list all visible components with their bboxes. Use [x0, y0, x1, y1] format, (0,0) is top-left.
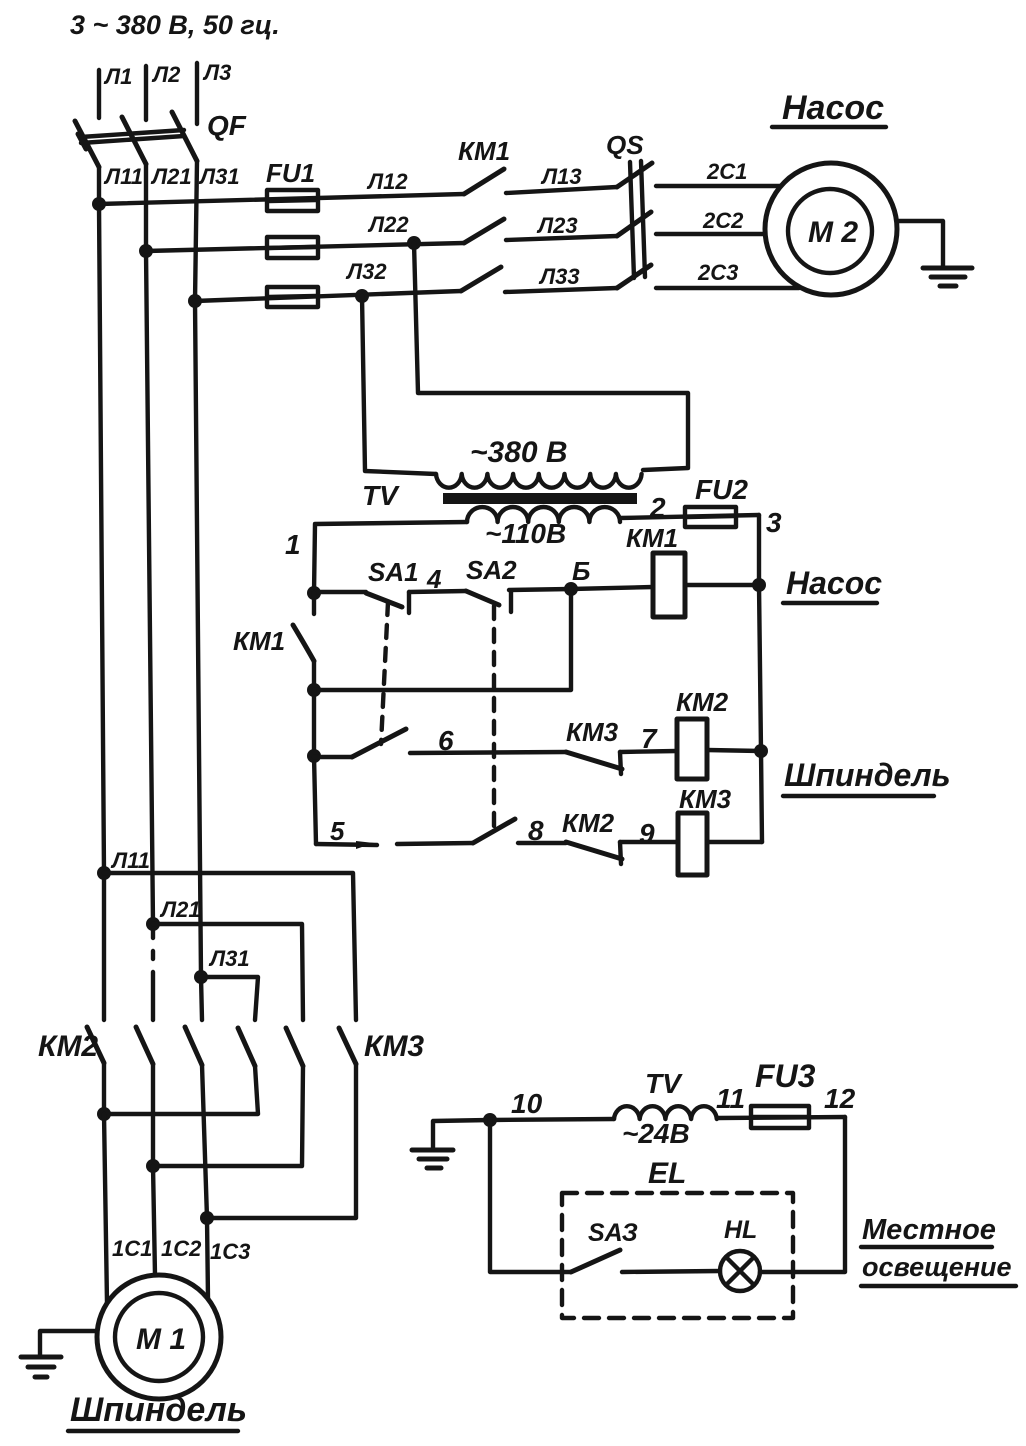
svg-text:FU3: FU3 [755, 1058, 816, 1094]
node L21 lower junction [146, 897, 201, 931]
svg-text:М 2: М 2 [808, 216, 858, 249]
switch SA1 second pole (rung2) [352, 729, 406, 757]
wire SA3 to lamp HL [622, 1271, 720, 1272]
svg-text:2С1: 2С1 [706, 159, 747, 184]
node L31 lower junction [194, 946, 250, 984]
svg-text:Л31: Л31 [208, 946, 250, 971]
wire KM1 coil to bus [685, 583, 759, 587]
switch SA2 (pole on rung1) [466, 555, 517, 612]
fuse FU1 pole 2 [267, 237, 318, 258]
svg-text:1С1: 1С1 [112, 1236, 152, 1261]
svg-text:Л33: Л33 [538, 264, 580, 289]
node L21/row2 junction [139, 244, 153, 258]
mechanical link dashes SA1 [381, 602, 388, 744]
wire node 7 segment [620, 723, 677, 754]
node crossover B junction [146, 1159, 160, 1173]
wire 1C2 to motor [153, 1166, 202, 1275]
wire L2 incoming [146, 62, 181, 120]
contactor KM3 main contact pole1 [238, 1028, 255, 1066]
svg-text:КМ1: КМ1 [626, 523, 678, 553]
svg-text:SАЗ: SАЗ [588, 1219, 638, 1247]
wire L23 [506, 213, 617, 240]
svg-text:Насос: Насос [786, 565, 882, 601]
wire secondary left lead to node 1 [285, 522, 467, 593]
disconnect switch QS [606, 130, 652, 288]
wire primary lead from row3 [362, 296, 436, 474]
wire L31 branch to KM3 pole1 [201, 977, 258, 1020]
node L11/row1 junction [92, 197, 106, 211]
node crossover C junction [200, 1211, 214, 1225]
contactor KM2 main contact pole1 [38, 1027, 104, 1063]
svg-text:Л11: Л11 [110, 848, 150, 873]
wire crossover rung B (1C2) [153, 1064, 303, 1166]
contactor KM3 main contact pole3 [339, 1028, 424, 1064]
wire L3 incoming [197, 60, 231, 124]
coil KM1 [626, 523, 685, 617]
svg-text:Л23: Л23 [536, 213, 578, 238]
transformer TV primary winding ~380V [436, 436, 642, 488]
wire 2C3 [656, 260, 799, 288]
svg-text:Л21: Л21 [150, 164, 192, 189]
svg-text:Л2: Л2 [151, 62, 181, 87]
svg-text:ТV: ТV [362, 480, 400, 511]
svg-text:КМ3: КМ3 [679, 784, 732, 814]
contactor KM1 main contact pole2 [464, 219, 504, 243]
svg-text:2С3: 2С3 [697, 260, 738, 285]
wire 1C3 to motor [207, 1218, 250, 1299]
wire seal-in branch [314, 589, 571, 690]
wire L11 vertical bus [99, 164, 143, 1020]
wire secondary right lead / node 2 [620, 492, 759, 523]
contact KM2 NC (rung3 interlock) [562, 808, 622, 864]
wire node 9 segment [620, 818, 678, 849]
svg-text:10: 10 [511, 1088, 543, 1119]
label TV [362, 480, 400, 511]
svg-text:SА1: SА1 [368, 557, 419, 587]
wire KM3 coil to bus [707, 840, 762, 844]
fuse FU3 [751, 1058, 816, 1128]
fuse FU2 [685, 474, 748, 527]
svg-text:Л32: Л32 [345, 259, 387, 284]
svg-text:6: 6 [438, 725, 454, 756]
wire 2C2 [656, 208, 765, 234]
svg-text:Б: Б [572, 556, 590, 586]
svg-text:3 ~ 380 В, 50 гц.: 3 ~ 380 В, 50 гц. [70, 10, 280, 40]
wire node10 down to switch SA3 [490, 1120, 571, 1272]
svg-text:8: 8 [528, 815, 544, 846]
luminaire EL dashed enclosure [562, 1157, 793, 1318]
wire L33 [505, 264, 617, 292]
contactor KM2 main contact pole2 [136, 1027, 153, 1064]
svg-text:КМ3: КМ3 [566, 717, 619, 747]
wire primary loop from row2 [414, 243, 688, 470]
node rung2 left junction [307, 749, 321, 763]
svg-text:Л1: Л1 [103, 64, 132, 89]
contactor KM1 main contact pole1 [458, 136, 510, 194]
svg-text:SА2: SА2 [466, 555, 517, 585]
transformer TV core [443, 493, 637, 504]
wire L1 incoming [99, 64, 132, 118]
svg-text:Л11: Л11 [103, 164, 143, 189]
wire L11 branch to KM3 pole3 [104, 873, 356, 1020]
motor M2 (pump) [765, 163, 897, 295]
coil KM3 [678, 784, 732, 875]
svg-text:~110В: ~110В [485, 518, 566, 549]
wire node 11 to fuse [716, 1083, 845, 1118]
svg-text:ТV: ТV [645, 1068, 683, 1099]
svg-text:12: 12 [824, 1083, 856, 1114]
svg-text:КМ3: КМ3 [364, 1030, 424, 1063]
svg-text:FU1: FU1 [266, 158, 315, 188]
wire KM2 coil to bus [707, 750, 761, 751]
svg-text:3: 3 [766, 507, 782, 538]
wire rung3 segment A [316, 816, 473, 849]
svg-text:Л12: Л12 [366, 169, 408, 194]
svg-text:Шпиндель: Шпиндель [784, 757, 951, 793]
label Shpindel (spindle) [783, 757, 951, 796]
svg-text:КМ2: КМ2 [38, 1030, 98, 1063]
ground at lighting circuit [412, 1120, 490, 1168]
svg-text:1С2: 1С2 [161, 1236, 202, 1261]
transformer TV winding ~24V [614, 1068, 717, 1149]
switch SA3 [571, 1219, 638, 1272]
motor M1 (spindle) [97, 1275, 221, 1399]
label Nasos (rung1) [783, 565, 882, 603]
lamp HL [720, 1216, 760, 1291]
node 1 junction [307, 586, 321, 600]
fuse FU1 pole 3 [267, 287, 318, 307]
node 3 and right control bus [759, 507, 782, 842]
wire 1C1 to motor [104, 1114, 152, 1303]
label Mestnoe osveshchenie (local lighting) [861, 1214, 1016, 1286]
node 10 junction [483, 1088, 543, 1127]
wire left control bus down [314, 690, 316, 844]
svg-text:Шпиндель: Шпиндель [70, 1391, 247, 1429]
node row2 / transformer tap [407, 236, 421, 250]
svg-text:7: 7 [641, 723, 658, 754]
wire crossover rung C (1C3) [202, 1064, 356, 1218]
switch SA1 (pole on rung1) [366, 557, 419, 613]
net label 3~380V 50Hz [70, 10, 280, 40]
wire node10 to TV 24V winding [490, 1119, 614, 1120]
wire L21 vertical bus [146, 164, 192, 1020]
svg-text:QF: QF [207, 110, 247, 141]
node rung2/bus junction [754, 744, 768, 758]
contact KM3 NC (rung2 interlock) [566, 717, 622, 774]
svg-text:QS: QS [606, 130, 644, 160]
wire L21 branch to KM3 pole2 [153, 924, 303, 1020]
wire node 4 segment [409, 564, 466, 594]
svg-text:Л21: Л21 [159, 897, 201, 922]
svg-text:FU2: FU2 [695, 474, 748, 505]
wire crossover rung A (1C1) [104, 1063, 258, 1114]
svg-text:М 1: М 1 [136, 1323, 186, 1356]
wire 2C1 [656, 159, 780, 186]
svg-text:1С3: 1С3 [210, 1239, 250, 1264]
svg-text:1: 1 [285, 529, 301, 560]
node L31/row3 junction [188, 294, 202, 308]
svg-text:Местное: Местное [862, 1214, 996, 1246]
wire control rung1 segment A [314, 590, 366, 594]
svg-text:Л13: Л13 [540, 164, 582, 189]
svg-text:Л31: Л31 [198, 164, 240, 189]
wire row1 L12 [99, 169, 464, 204]
node row3 / transformer tap [355, 289, 369, 303]
svg-text:Насос: Насос [782, 89, 884, 127]
ground at motor M1 [21, 1331, 97, 1377]
wire node 8 segment [518, 815, 566, 846]
contactor KM1 main contact pole3 [461, 267, 501, 291]
label Shpindel (spindle motor) [68, 1391, 247, 1431]
node B junction [564, 582, 578, 596]
wire rung2 segment A [314, 755, 352, 759]
label Nasos (pump) heading [772, 89, 886, 127]
node seal-in junction [307, 683, 321, 697]
svg-text:4: 4 [426, 564, 442, 594]
svg-text:~380 В: ~380 В [470, 436, 568, 469]
svg-text:11: 11 [716, 1083, 745, 1114]
svg-text:КМ2: КМ2 [676, 687, 729, 717]
wire row2 L22 [146, 212, 464, 251]
svg-text:ЕL: ЕL [648, 1157, 686, 1190]
wire to node B [509, 556, 653, 590]
mechanical link dashes SA2 [492, 606, 496, 828]
svg-text:2С2: 2С2 [702, 208, 744, 233]
svg-text:КМ1: КМ1 [458, 136, 510, 166]
wire L31 vertical bus [195, 161, 240, 1020]
transformer TV secondary winding ~110V [467, 507, 620, 549]
contactor KM2 main contact pole3 [185, 1027, 202, 1065]
circuit breaker QF [75, 110, 247, 167]
node L11 lower junction [97, 848, 150, 880]
svg-text:НL: НL [724, 1216, 757, 1244]
node rung1/bus junction [752, 578, 766, 592]
svg-text:КМ1: КМ1 [233, 626, 285, 656]
node crossover A junction [97, 1107, 111, 1121]
svg-text:5: 5 [330, 816, 345, 846]
wire row3 L32 [195, 259, 461, 301]
svg-text:КМ2: КМ2 [562, 808, 615, 838]
coil KM2 [676, 687, 729, 779]
ground at motor M2 [899, 221, 972, 286]
svg-text:~24В: ~24В [622, 1118, 690, 1149]
auxiliary contact KM1 (seal-in) [233, 593, 314, 690]
svg-text:Л22: Л22 [367, 212, 409, 237]
wire node 6 segment [410, 725, 566, 756]
svg-text:9: 9 [639, 818, 655, 849]
svg-text:2: 2 [649, 492, 666, 523]
wire L13 [506, 164, 617, 193]
switch SA2 second pole (rung3) [473, 819, 515, 843]
wire node 12 down to lamp [760, 1083, 856, 1272]
svg-text:освещение: освещение [862, 1252, 1012, 1282]
contactor KM3 main contact pole2 [286, 1028, 303, 1066]
fuse FU1 pole 1 [266, 158, 318, 211]
svg-text:Л3: Л3 [202, 60, 231, 85]
